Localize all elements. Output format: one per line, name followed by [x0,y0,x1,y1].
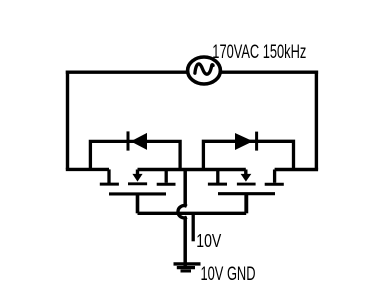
transistor Q2 (right MOSFET) [208,170,284,214]
diode D2 (right, cathode right) [203,132,293,170]
wire center vertical upper [183,170,187,206]
wire left horizontal [66,168,109,171]
wire right horizontal [275,168,319,171]
wire right rail [315,71,318,170]
wire top rail [66,70,318,73]
svg-text:170VAC 150kHz: 170VAC 150kHz [212,42,306,63]
wire center vertical lower [183,217,187,267]
wire 10V stub [192,213,195,241]
label 10V [196,230,221,251]
wire center horizontal [138,168,246,171]
AC source V1 [188,57,221,84]
transistor Q1 (left MOSFET) [100,169,176,213]
wire gate interconnect [138,212,247,215]
ground symbol [174,264,201,271]
wire hop over gate wire [178,206,187,218]
label 170VAC 150kHz [212,42,306,63]
wire left rail [66,71,69,170]
svg-text:10V GND: 10V GND [201,264,256,285]
label 10V GND [201,264,256,285]
diode D1 (left, cathode left) [90,131,180,169]
svg-text:10V: 10V [196,230,221,251]
